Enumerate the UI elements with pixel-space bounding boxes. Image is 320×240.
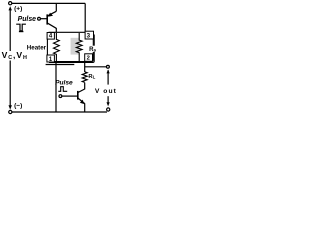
wire Q1 collector to pin4 — [55, 28, 57, 33]
wire sensor base line — [46, 64, 75, 66]
transistor Q2 base bar — [77, 91, 79, 100]
transistor Q1 base bar — [46, 14, 48, 24]
arrow up at (+) — [9, 6, 12, 10]
label (-) — [14, 101, 27, 110]
pulse waveform symbol bottom (positive pulse) — [58, 87, 67, 92]
wire pin3 from top rail — [84, 3, 86, 32]
svg-text:Pulse: Pulse — [18, 16, 37, 23]
wire Vout tap horizontal — [85, 66, 107, 68]
resistor Rs zigzag — [76, 33, 82, 62]
arrow down at (-) — [9, 105, 12, 109]
transistor Q1 collector diagonal — [48, 23, 57, 28]
svg-text:2: 2 — [87, 56, 90, 62]
svg-text:V out: V out — [95, 88, 117, 95]
pin square 4 — [47, 33, 54, 40]
label Rs — [89, 46, 97, 54]
wire RL bottom to Q2 collector — [84, 83, 86, 90]
wire left rail lower — [9, 61, 11, 106]
pin square 3 — [85, 31, 93, 39]
label V out — [95, 86, 118, 95]
transistor Q2 NPN emitter arrow — [80, 100, 84, 104]
svg-text:(+): (+) — [14, 6, 22, 13]
svg-text:Heater: Heater — [27, 44, 47, 51]
wire top rail — [12, 2, 85, 4]
node (-) terminal circle bottom-left — [9, 110, 12, 113]
wire Vout upper stem — [107, 70, 109, 84]
sensor gray element behind Rs — [71, 38, 80, 55]
svg-text:Pulse: Pulse — [55, 80, 73, 87]
wire Vout lower stem — [107, 96, 109, 103]
node Vout top terminal circle — [106, 65, 109, 68]
wire bottom rail — [12, 111, 107, 113]
node pulse input circle bottom — [59, 95, 62, 98]
pin square 1 — [47, 55, 55, 63]
arrow down at Vout bottom — [107, 102, 110, 106]
pulse waveform symbol top (inverted pulse) — [16, 24, 26, 31]
sensor body box — [47, 32, 94, 62]
wire left rail upper — [9, 10, 11, 51]
svg-text:3: 3 — [87, 33, 91, 40]
node Vout bottom terminal circle — [107, 108, 110, 111]
wire Q2 emitter to bottom rail — [84, 103, 86, 112]
transistor Q1 emitter diagonal — [48, 11, 57, 16]
pin square 2 — [85, 54, 93, 62]
transistor Q1 PNP emitter arrow — [48, 13, 53, 17]
arrow up at Vout top — [107, 69, 110, 73]
wire Q1 emitter vertical — [55, 3, 57, 11]
transistor Q2 emitter diagonal — [78, 98, 85, 104]
resistor RL zigzag — [82, 72, 87, 83]
wire Q1 base — [41, 18, 48, 20]
wire Q2 base — [62, 95, 78, 97]
node pulse input circle top — [38, 17, 41, 20]
label Vc,VH — [1, 50, 29, 61]
svg-text:RL: RL — [88, 74, 95, 80]
transistor Q2 collector diagonal — [78, 89, 85, 93]
wire pin1 to bottom rail — [55, 62, 57, 112]
node (+) terminal circle top-left — [9, 2, 12, 5]
svg-text:(−): (−) — [14, 103, 22, 110]
resistor heater zigzag — [54, 33, 60, 62]
wire pin2 down — [84, 61, 86, 72]
